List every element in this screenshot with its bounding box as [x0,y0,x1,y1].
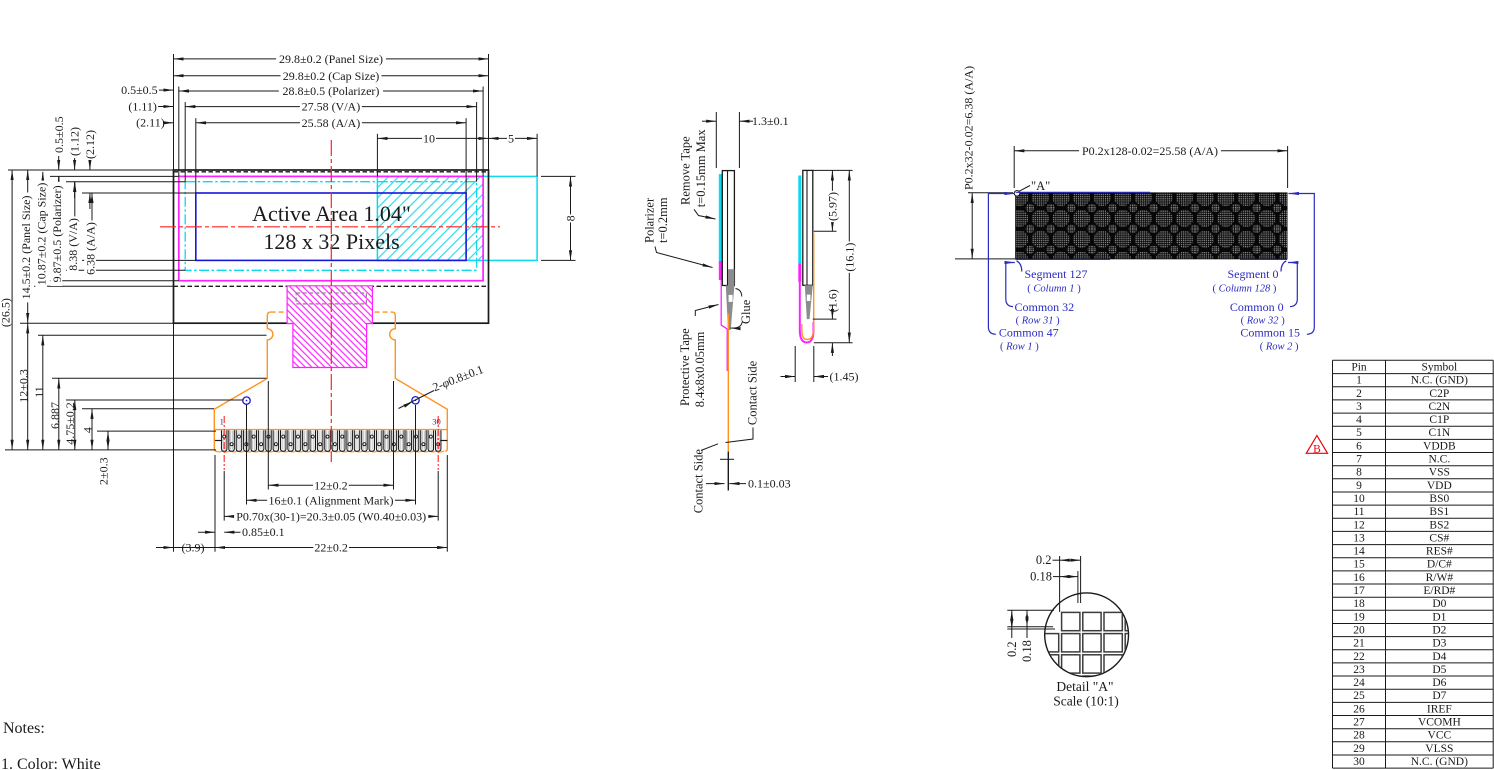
dimension 2 pin length (vertical) [107,431,109,450]
alignment mark circle left [243,397,250,404]
svg-text:12: 12 [1353,519,1365,531]
centerline vertical (red) [330,140,332,462]
pin strip right tick [440,440,447,442]
svg-text:(2.12): (2.12) [83,130,97,159]
driver IC (magenta hatched) [287,286,372,368]
common 15 leader and label [1289,194,1315,335]
flex outline left [214,312,273,451]
pixel matrix black area [1016,193,1288,259]
svg-text:12±0.3: 12±0.3 [17,369,31,403]
svg-text:Detail "A": Detail "A" [1056,679,1113,694]
svg-text:6: 6 [1356,440,1362,452]
svg-text:0.2: 0.2 [1036,553,1052,567]
dimension 28.8 polarizer [179,90,483,92]
svg-text:D/C#: D/C# [1427,559,1452,571]
segment 127 bracket and label [1017,261,1022,272]
svg-text:( Column 1 ): ( Column 1 ) [1027,284,1081,295]
dimension 6.887 (vertical) [58,378,60,450]
svg-text:VDD: VDD [1427,480,1452,492]
svg-text:Symbol: Symbol [1421,362,1457,374]
svg-text:VCC: VCC [1428,730,1452,742]
dimension 0.85 [198,531,215,533]
dimension 0.2 (left) [1011,610,1013,617]
svg-text:10: 10 [1353,493,1365,505]
dimension 8 (remove tape height) [541,175,576,177]
svg-text:( Column 128 ): ( Column 128 ) [1213,284,1277,295]
svg-text:0.5±0.5: 0.5±0.5 [52,116,66,153]
front view: viewing area rectangle (cyan dash-dot) [185,182,476,271]
svg-text:D1: D1 [1432,611,1446,623]
dimension P0.2x128 A/A width [1014,150,1287,152]
svg-text:RES#: RES# [1426,546,1453,558]
svg-text:27: 27 [1353,717,1365,729]
dimension 14.5 panel size (vertical) [27,170,29,323]
svg-text:25.58 (A/A): 25.58 (A/A) [302,116,361,130]
svg-text:0.85±0.1: 0.85±0.1 [242,525,285,539]
svg-text:(5.97): (5.97) [825,192,839,221]
svg-text:22: 22 [1353,651,1365,663]
svg-text:18: 18 [1353,598,1365,610]
svg-text:14: 14 [1353,546,1365,558]
svg-text:N.C. (GND): N.C. (GND) [1411,756,1468,768]
svg-text:Segment 127: Segment 127 [1025,267,1088,281]
svg-text:1: 1 [220,417,224,427]
common 0 leader and label [1288,263,1297,307]
svg-text:( Row 1 ): ( Row 1 ) [1000,341,1039,352]
dimension 16.1 [848,170,850,342]
side view right: polarizer strip (magenta) [798,263,801,282]
svg-text:27.58 (V/A): 27.58 (V/A) [302,100,361,114]
dimension 27.58 V/A [185,106,476,108]
svg-text:Protective Tape: Protective Tape [678,328,692,406]
dimension pin pitch P0.70 [224,515,438,517]
label 2-dia0.8 with leader [399,362,486,408]
svg-text:Common 0: Common 0 [1230,300,1284,314]
svg-text:Common 15: Common 15 [1240,326,1300,340]
svg-text:(26.5): (26.5) [0,298,12,327]
svg-text:R/W#: R/W# [1426,572,1454,584]
svg-text:Common 47: Common 47 [999,326,1059,340]
side view left: flex tail end (black) [727,452,729,491]
side view left: glass [722,171,734,286]
svg-text:20: 20 [1353,624,1365,636]
dimension P0.2x32 A/A height (rotated label) [971,193,973,259]
svg-text:(16.1): (16.1) [842,243,856,272]
svg-text:B: B [1313,443,1321,455]
matrix top dim extension lines [1013,146,1015,188]
blue edge highlight lines [1016,191,1150,193]
svg-text:6.38 (A/A): 6.38 (A/A) [83,222,97,275]
side view left: remove tape strip (cyan) [719,174,722,261]
svg-text:11: 11 [32,386,46,398]
svg-text:(1.12): (1.12) [68,127,82,156]
front view: remove tape hatched area [377,176,483,260]
svg-text:16: 16 [1353,572,1365,584]
svg-text:2±0.3: 2±0.3 [96,457,110,485]
svg-text:P0.2x128-0.02=25.58 (A/A): P0.2x128-0.02=25.58 (A/A) [1082,144,1218,158]
svg-text:N.C. (GND): N.C. (GND) [1411,375,1468,387]
dimension 10.87 cap size (vertical) [42,172,44,286]
svg-text:11: 11 [1353,506,1364,518]
svg-text:13: 13 [1353,532,1365,544]
svg-text:1: 1 [1356,375,1362,387]
svg-text:Pin: Pin [1351,362,1367,374]
svg-text:22±0.2: 22±0.2 [314,541,348,555]
side right dims extension lines [813,169,853,171]
dimension 11 (vertical) [42,335,44,450]
svg-text:2: 2 [1356,388,1362,400]
side view right: glue spike [805,285,813,319]
side view left: flex tail (orange) [727,314,729,452]
svg-text:29.8±0.2 (Cap Size): 29.8±0.2 (Cap Size) [283,69,380,83]
svg-text:(2.11): (2.11) [136,116,165,130]
svg-text:17: 17 [1353,585,1365,597]
dimension 26.5 overall (vertical) [11,170,13,450]
svg-text:Glue: Glue [739,299,753,324]
pin strip left tick [215,440,222,442]
svg-text:4: 4 [1356,414,1362,426]
dimension 3.9 [156,547,174,549]
svg-text:VSS: VSS [1429,467,1450,479]
dimension 5 [489,137,538,139]
side view right: remove tape strip (cyan) [798,176,801,264]
svg-text:8.38 (V/A): 8.38 (V/A) [66,218,80,271]
svg-text:0.5±0.5: 0.5±0.5 [121,83,158,97]
pin table [1333,360,1494,768]
dimension 12 pin span [268,484,393,486]
dimension 1.6 [826,292,839,314]
dimension 1.3 top [715,112,717,168]
dimension 5.97 [831,170,833,231]
svg-text:30: 30 [432,417,441,427]
svg-text:D6: D6 [1432,677,1446,689]
side view right: glass [803,170,813,285]
svg-text:C1N: C1N [1428,427,1450,439]
dimension 1.45 [794,346,796,382]
svg-text:C2N: C2N [1428,401,1450,413]
front view: active area rectangle (blue) [196,193,466,260]
front view: panel outline [174,170,489,323]
dimension 8.38 V/A (vertical) [74,182,76,271]
svg-text:0.2: 0.2 [1005,641,1019,657]
svg-text:D0: D0 [1432,598,1446,610]
common 32 leader and label [1006,263,1015,307]
dimension 4.75 alignment mark (vertical) [74,400,76,450]
svg-text:24: 24 [1353,677,1365,689]
svg-text:P0.2x32-0.02=6.38 (A/A): P0.2x32-0.02=6.38 (A/A) [961,66,975,190]
svg-text:29.8±0.2 (Panel Size): 29.8±0.2 (Panel Size) [279,52,383,66]
detail A top dim lines [1059,556,1061,612]
svg-text:IREF: IREF [1427,703,1452,715]
svg-text:CS#: CS# [1429,532,1449,544]
connector pins (30) [221,430,441,451]
pin 1 centerline (red) [223,416,225,470]
svg-text:28: 28 [1353,730,1365,742]
svg-text:C1P: C1P [1429,414,1449,426]
side view left: polarizer strip (magenta) [719,261,722,280]
left extension lines [8,169,174,171]
svg-text:6.887: 6.887 [48,402,62,429]
dimension 0.1 flex thickness [706,483,725,485]
svg-text:29: 29 [1353,743,1365,755]
dimension 0.18 (left) [1026,610,1028,617]
pin 30 centerline (red) [437,416,439,470]
svg-text:0.18: 0.18 [1030,570,1052,584]
dimension 9.87 polarizer (vertical) [58,176,60,280]
svg-text:8: 8 [1356,467,1362,479]
svg-text:12±0.2: 12±0.2 [314,478,348,492]
centerline horizontal (red) [160,226,500,228]
svg-text:28.8±0.5 (Polarizer): 28.8±0.5 (Polarizer) [283,84,380,98]
detail A left dim lines [1007,609,1054,611]
svg-text:BS1: BS1 [1429,506,1449,518]
svg-text:5: 5 [508,131,514,145]
svg-text:(1.11): (1.11) [128,99,157,113]
svg-text:21: 21 [1353,638,1365,650]
svg-text:4.75±0.2: 4.75±0.2 [63,402,77,445]
dimension 29.8 panel size [174,58,489,60]
segment 0 bracket and label [1281,261,1286,272]
svg-text:VDDB: VDDB [1423,440,1456,452]
side view left: protective tape (magenta) [721,280,727,371]
svg-text:4: 4 [81,427,95,433]
bottom extension lines [267,381,269,490]
top dim extension lines [173,54,175,170]
svg-text:D4: D4 [1432,651,1446,663]
dimension 22 flex width [215,547,447,549]
svg-text:10: 10 [423,131,435,145]
dimension 29.8 cap size [174,75,489,77]
svg-text:D2: D2 [1432,624,1446,636]
dimension 10 [377,137,488,139]
svg-text:BS2: BS2 [1429,519,1449,531]
svg-text:Segment 0: Segment 0 [1228,267,1279,281]
side view left: glue fill [728,269,734,285]
svg-text:VCOMH: VCOMH [1418,717,1461,729]
svg-text:E/RD#: E/RD# [1423,585,1455,597]
svg-text:D3: D3 [1432,638,1446,650]
svg-text:P0.70x(30-1)=20.3±0.05 (W0.40±: P0.70x(30-1)=20.3±0.05 (W0.40±0.03) [236,509,426,523]
svg-text:D7: D7 [1432,690,1446,702]
flex outline right [390,312,448,451]
svg-text:Remove Tape: Remove Tape [679,136,693,205]
svg-text:14.5±0.2 (Panel Size): 14.5±0.2 (Panel Size) [19,196,33,300]
side view right: protective tape wrap (magenta) [800,282,814,343]
svg-text:10.87±0.2 (Cap Size): 10.87±0.2 (Cap Size) [35,183,49,286]
matrix left dim extension lines [968,192,1013,194]
svg-text:( Row 2 ): ( Row 2 ) [1260,341,1299,352]
flex outline top (orange dashed) [271,311,392,313]
svg-text:2-φ0.8±0.1: 2-φ0.8±0.1 [431,362,486,394]
svg-text:Notes:: Notes: [3,720,45,737]
svg-text:8.4x8x0.05mm: 8.4x8x0.05mm [693,331,707,407]
dimension 16 alignment mark [247,499,416,501]
svg-text:30: 30 [1353,756,1365,768]
svg-text:(3.9): (3.9) [182,540,205,554]
svg-text:t=0.2mm: t=0.2mm [656,197,670,243]
svg-text:Common 32: Common 32 [1015,300,1075,314]
label glue with brace [736,289,742,297]
svg-text:26: 26 [1353,703,1365,715]
dimension 25.58 A/A [196,122,466,124]
detail A pixel grid [1040,612,1143,694]
svg-text:"A": "A" [1031,179,1050,193]
detail A callout circle and label [1014,191,1020,197]
svg-text:19: 19 [1353,611,1365,623]
svg-text:3: 3 [1356,401,1362,413]
front view: polarizer rectangle (magenta) [179,176,483,280]
flex bottom scalloped edge (orange) [215,451,444,452]
svg-text:7: 7 [1356,454,1362,466]
svg-text:D5: D5 [1432,664,1446,676]
svg-text:VLSS: VLSS [1425,743,1453,755]
svg-text:5: 5 [1356,427,1362,439]
dimension 4 (vertical) [91,409,93,450]
alignment mark circle right [412,397,419,404]
svg-text:0.18: 0.18 [1020,640,1034,662]
svg-text:BS0: BS0 [1429,493,1449,505]
front view: remove tape outline (cyan) [377,176,537,260]
front view: cap outline (black dashed) [174,171,489,173]
revision triangle B [1306,436,1327,454]
svg-text:Contact Side: Contact Side [745,360,759,425]
svg-text:0.1±0.03: 0.1±0.03 [748,476,791,490]
svg-text:(1.45): (1.45) [830,369,859,383]
common 47 leader and label [988,194,1014,335]
dimension 6.38 A/A (vertical) [91,193,93,260]
svg-text:Polarizer: Polarizer [643,197,657,243]
IC dashed detail rectangle (gray) [296,293,366,304]
svg-text:1. Color: White: 1. Color: White [1,756,101,770]
svg-text:15: 15 [1353,559,1365,571]
svg-text:16±0.1 (Alignment Mark): 16±0.1 (Alignment Mark) [269,493,394,507]
svg-text:C2P: C2P [1429,388,1449,400]
svg-text:25: 25 [1353,690,1365,702]
svg-text:Contact Side: Contact Side [692,449,706,514]
svg-text:23: 23 [1353,664,1365,676]
svg-text:1.3±0.1: 1.3±0.1 [752,114,789,128]
dimension 12 flex length (vertical) [27,323,29,450]
side view right: flex bend (orange) [802,233,814,340]
detail A circle [1045,593,1129,677]
svg-text:t=0.15mm Max: t=0.15mm Max [694,129,708,208]
flex pin-strip top line (orange) [214,429,447,431]
svg-text:9: 9 [1356,480,1362,492]
svg-text:8: 8 [564,215,578,221]
svg-text:9.87±0.5 (Polarizer): 9.87±0.5 (Polarizer) [50,185,64,282]
svg-text:N.C.: N.C. [1428,454,1450,466]
svg-text:Scale (10:1): Scale (10:1) [1053,694,1119,709]
